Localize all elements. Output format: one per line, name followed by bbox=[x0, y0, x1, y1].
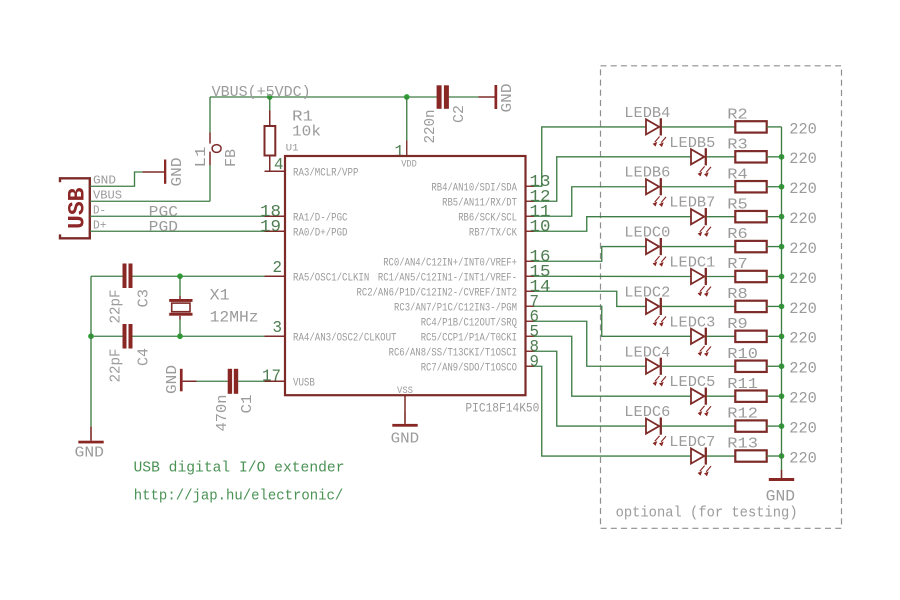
node junction bus bbox=[779, 453, 785, 459]
wire net pin 16 to LED row 5 bbox=[534, 247, 646, 262]
svg-text:GND: GND bbox=[500, 84, 516, 113]
wire OSC2 row bbox=[91, 335, 123, 337]
svg-text:R7: R7 bbox=[727, 256, 747, 273]
node junction left rail C4 bbox=[88, 333, 94, 339]
resistor R11 bbox=[735, 390, 766, 401]
svg-text:RC0/AN4/C12IN+/INT0/VREF+: RC0/AN4/C12IN+/INT0/VREF+ bbox=[383, 258, 517, 270]
ground symbol left GND bbox=[90, 427, 92, 441]
op-amp U1 PIC18F14K50 body bbox=[285, 156, 526, 395]
pin 1 stub bbox=[406, 141, 408, 157]
svg-text:17: 17 bbox=[262, 366, 281, 385]
node junction bus bbox=[779, 154, 785, 160]
svg-text:220: 220 bbox=[789, 449, 817, 467]
svg-text:GND: GND bbox=[165, 365, 181, 394]
svg-text:RC6/AN8/SS/T13CKI/T1OSCI: RC6/AN8/SS/T13CKI/T1OSCI bbox=[389, 348, 517, 360]
net PGC wire D- bbox=[90, 215, 266, 217]
LED LEDC4 bbox=[646, 359, 659, 374]
LED LEDB4 bbox=[646, 119, 659, 134]
svg-text:RB5/AN11/RX/DT: RB5/AN11/RX/DT bbox=[442, 198, 517, 210]
wire resistor bus bbox=[781, 127, 783, 471]
ground symbol VSS GND bbox=[404, 412, 406, 424]
wire net pin 8 to LED row 11 bbox=[534, 351, 646, 426]
ground symbol C1 GND bbox=[180, 369, 183, 392]
svg-text:220: 220 bbox=[789, 330, 817, 348]
wire net pin 13 to LED row 1 bbox=[534, 127, 646, 186]
node junction bus bbox=[779, 333, 785, 339]
inductor L1 ferrite bead bbox=[209, 133, 211, 144]
node junction VDD bbox=[404, 94, 410, 100]
wire R2 to bus bbox=[767, 126, 782, 128]
svg-text:R8: R8 bbox=[727, 286, 747, 303]
svg-text:10k: 10k bbox=[292, 123, 321, 140]
svg-text:GND: GND bbox=[391, 431, 420, 448]
svg-text:LEDC7: LEDC7 bbox=[669, 435, 715, 451]
svg-text:GND: GND bbox=[170, 158, 186, 187]
wire R13 to bus bbox=[767, 455, 782, 457]
pin 17 stub bbox=[265, 380, 286, 382]
svg-text:220: 220 bbox=[789, 180, 817, 198]
pin 18 stub bbox=[265, 215, 286, 217]
wire LED cathode to R13 bbox=[707, 455, 735, 457]
svg-text:GND: GND bbox=[766, 488, 795, 506]
svg-text:10: 10 bbox=[530, 217, 551, 236]
resistor R5 bbox=[735, 211, 766, 222]
svg-text:VUSB: VUSB bbox=[293, 378, 315, 390]
wire USB VBUS to L1 bbox=[90, 200, 210, 202]
wire R1 to pin 4 bbox=[269, 156, 271, 172]
resistor R3 bbox=[735, 151, 766, 162]
LED LEDC7 bbox=[691, 448, 704, 463]
svg-text:4: 4 bbox=[274, 155, 284, 174]
wire R11 to bus bbox=[767, 395, 782, 397]
wire LED cathode to R11 bbox=[707, 395, 735, 397]
svg-text:C4: C4 bbox=[137, 348, 153, 366]
svg-text:220: 220 bbox=[789, 270, 817, 288]
pin 12 stub bbox=[526, 200, 535, 202]
capacitor C4 bbox=[123, 324, 127, 349]
svg-text:L1: L1 bbox=[194, 147, 210, 168]
wire USB GND to ground bbox=[90, 172, 143, 186]
svg-text:RB4/AN10/SDI/SDA: RB4/AN10/SDI/SDA bbox=[431, 183, 517, 195]
svg-text:22pF: 22pF bbox=[108, 290, 124, 324]
svg-text:LEDC4: LEDC4 bbox=[624, 345, 670, 361]
wire net pin 5 to LED row 10 bbox=[534, 336, 691, 396]
wire LED cathode to R3 bbox=[707, 156, 735, 158]
LED LEDB7 bbox=[691, 209, 704, 224]
svg-text:R4: R4 bbox=[727, 166, 747, 183]
node junction bus bbox=[779, 274, 785, 280]
wire LED cathode to R2 bbox=[662, 126, 735, 128]
svg-text:R13: R13 bbox=[727, 436, 758, 453]
svg-text:LEDC5: LEDC5 bbox=[669, 375, 715, 391]
svg-text:GND: GND bbox=[75, 445, 105, 462]
capacitor C3 bbox=[123, 264, 127, 289]
wire net pin 6 to LED row 9 bbox=[534, 321, 646, 366]
pin 4 stub bbox=[265, 170, 286, 172]
wire R6 to bus bbox=[767, 246, 782, 248]
resistor R6 bbox=[735, 241, 766, 252]
svg-text:RC2/AN6/P1D/C12IN2-/CVREF/INT2: RC2/AN6/P1D/C12IN2-/CVREF/INT2 bbox=[357, 288, 518, 300]
svg-text:220: 220 bbox=[789, 360, 817, 378]
wire R5 to bus bbox=[767, 216, 782, 218]
svg-text:R3: R3 bbox=[727, 136, 747, 153]
pin 15 stub bbox=[526, 275, 535, 277]
resistor R9 bbox=[735, 331, 766, 342]
crystal X1 bbox=[169, 299, 192, 302]
LED LEDB6 bbox=[646, 179, 659, 194]
wire net pin 15 to LED row 6 bbox=[534, 275, 691, 277]
wire R8 to bus bbox=[767, 305, 782, 307]
svg-text:LEDB7: LEDB7 bbox=[669, 196, 715, 212]
svg-text:USB: USB bbox=[65, 187, 91, 229]
svg-text:RC3/AN7/P1C/C12IN3-/PGM: RC3/AN7/P1C/C12IN3-/PGM bbox=[394, 303, 517, 315]
svg-text:2: 2 bbox=[273, 258, 283, 277]
LED LEDC1 bbox=[691, 269, 704, 284]
svg-text:RA1/D-/PGC: RA1/D-/PGC bbox=[293, 213, 348, 225]
svg-text:220n: 220n bbox=[423, 110, 439, 144]
svg-text:C3: C3 bbox=[137, 289, 153, 308]
wire net pin 11 to LED row 3 bbox=[534, 187, 646, 217]
wire LED cathode to R9 bbox=[707, 335, 735, 337]
svg-text:LEDC6: LEDC6 bbox=[624, 405, 670, 421]
svg-text:R10: R10 bbox=[727, 346, 758, 363]
svg-text:220: 220 bbox=[789, 240, 817, 258]
wire net pin 10 to LED row 4 bbox=[534, 217, 691, 232]
pin 5 stub bbox=[526, 335, 535, 337]
svg-text:LEDC1: LEDC1 bbox=[669, 256, 715, 272]
pin 8 stub bbox=[526, 350, 535, 352]
svg-text:U1: U1 bbox=[286, 143, 299, 155]
wire OSC1 row bbox=[91, 275, 123, 277]
resistor R2 bbox=[735, 121, 766, 132]
svg-text:USB digital I/O extender: USB digital I/O extender bbox=[134, 460, 345, 476]
svg-text:22pF: 22pF bbox=[108, 349, 124, 383]
ground symbol USB GND bbox=[143, 171, 165, 173]
LED LEDC5 bbox=[691, 389, 704, 404]
wire LED cathode to R5 bbox=[707, 216, 735, 218]
svg-text:X1: X1 bbox=[210, 287, 230, 305]
pin 7 stub bbox=[526, 305, 535, 307]
capacitor C1 bbox=[228, 369, 232, 394]
node junction bus bbox=[779, 214, 785, 220]
svg-text:LEDB5: LEDB5 bbox=[669, 136, 715, 152]
svg-text:RA4/AN3/OSC2/CLKOUT: RA4/AN3/OSC2/CLKOUT bbox=[293, 333, 397, 345]
wire net pin 7 to LED row 8 bbox=[534, 306, 691, 336]
svg-text:RB7/TX/CK: RB7/TX/CK bbox=[469, 228, 517, 240]
node junction bus bbox=[779, 304, 785, 310]
pin 19 stub bbox=[265, 230, 286, 232]
wire R4 to bus bbox=[767, 186, 782, 188]
svg-text:220: 220 bbox=[789, 300, 817, 318]
svg-text:R5: R5 bbox=[727, 196, 747, 213]
LED LEDC6 bbox=[646, 419, 659, 434]
pin 9 stub bbox=[526, 365, 535, 367]
svg-text:optional (for testing): optional (for testing) bbox=[616, 506, 798, 522]
wire LED cathode to R4 bbox=[662, 186, 735, 188]
wire net pin 14 to LED row 7 bbox=[534, 291, 646, 306]
resistor R13 bbox=[735, 450, 766, 461]
net PGD wire D+ bbox=[90, 230, 266, 232]
wire R12 to bus bbox=[767, 425, 782, 427]
wire LED cathode to R8 bbox=[662, 305, 735, 307]
svg-text:LEDC3: LEDC3 bbox=[669, 315, 715, 331]
svg-text:LEDC0: LEDC0 bbox=[624, 226, 670, 242]
svg-text:C1: C1 bbox=[240, 395, 256, 414]
pin 2 stub bbox=[265, 275, 286, 277]
svg-text:PGC: PGC bbox=[149, 205, 179, 221]
ground symbol C2 GND bbox=[479, 96, 495, 98]
wire LED cathode to R7 bbox=[707, 276, 735, 278]
svg-text:220: 220 bbox=[789, 150, 817, 168]
resistor R4 bbox=[735, 181, 766, 192]
svg-text:LEDB6: LEDB6 bbox=[624, 166, 670, 182]
svg-text:3: 3 bbox=[273, 318, 283, 337]
wire R7 to bus bbox=[767, 276, 782, 278]
LED LEDC3 bbox=[691, 329, 704, 344]
LED LEDB5 bbox=[691, 149, 704, 164]
resistor R8 bbox=[735, 301, 766, 312]
svg-text:RC7/AN9/SDO/T1OSCO: RC7/AN9/SDO/T1OSCO bbox=[421, 363, 518, 375]
svg-text:VBUS(+5VDC): VBUS(+5VDC) bbox=[212, 85, 311, 101]
svg-text:19: 19 bbox=[260, 217, 281, 236]
svg-text:R2: R2 bbox=[727, 107, 747, 124]
node junction crystal top bbox=[177, 273, 183, 279]
wire crystal bottom bbox=[179, 316, 181, 320]
node junction bus bbox=[779, 363, 785, 369]
pin 14 stub bbox=[526, 290, 535, 292]
node junction bus bbox=[779, 393, 785, 399]
svg-text:220: 220 bbox=[789, 120, 817, 138]
pin 13 stub bbox=[526, 185, 535, 187]
pin 6 stub bbox=[526, 320, 535, 322]
wire left vertical to ground bbox=[90, 276, 92, 426]
net VBUS(+5VDC) rail bbox=[210, 96, 437, 98]
wire rail to VDD pin bbox=[406, 97, 408, 141]
wire LED cathode to R6 bbox=[662, 246, 735, 248]
svg-text:9: 9 bbox=[530, 352, 540, 371]
wire net pin 9 to LED row 12 bbox=[534, 366, 691, 456]
svg-text:220: 220 bbox=[789, 390, 817, 408]
wire C1 to pin 17 bbox=[238, 380, 266, 382]
svg-text:220: 220 bbox=[789, 210, 817, 228]
wire R3 to bus bbox=[767, 156, 782, 158]
svg-text:RC5/CCP1/P1A/T0CKI: RC5/CCP1/P1A/T0CKI bbox=[421, 333, 517, 345]
wire LED cathode to R10 bbox=[662, 365, 735, 367]
node junction bus bbox=[779, 244, 785, 250]
svg-text:PIC18F14K50: PIC18F14K50 bbox=[465, 402, 539, 416]
svg-text:R12: R12 bbox=[727, 406, 758, 423]
LED LEDC2 bbox=[646, 299, 659, 314]
svg-text:R11: R11 bbox=[727, 376, 758, 393]
svg-text:220: 220 bbox=[789, 420, 817, 438]
capacitor C2 bbox=[437, 85, 442, 109]
wire C2 to GND bbox=[449, 96, 479, 98]
dashed optional box bbox=[601, 66, 842, 529]
svg-text:LEDB4: LEDB4 bbox=[624, 106, 670, 122]
pin 11 stub bbox=[526, 215, 535, 217]
svg-text:C2: C2 bbox=[452, 105, 468, 123]
LED LEDC0 bbox=[646, 239, 659, 254]
svg-text:12MHz: 12MHz bbox=[210, 309, 259, 327]
node junction bus bbox=[779, 184, 785, 190]
wire VSS to ground bbox=[404, 395, 406, 412]
svg-text:RC4/P1B/C12OUT/SRQ: RC4/P1B/C12OUT/SRQ bbox=[421, 318, 518, 330]
ground symbol bus GND bbox=[781, 470, 783, 478]
pin 3 stub bbox=[265, 335, 286, 337]
svg-text:RB6/SCK/SCL: RB6/SCK/SCL bbox=[458, 213, 517, 225]
connector USB body bbox=[60, 178, 90, 238]
svg-text:http://jap.hu/electronic/: http://jap.hu/electronic/ bbox=[134, 488, 343, 504]
svg-text:RA3/MCLR/VPP: RA3/MCLR/VPP bbox=[293, 168, 359, 180]
pin 10 stub bbox=[526, 230, 535, 232]
node junction crystal bottom bbox=[177, 333, 183, 339]
pin 16 stub bbox=[526, 260, 535, 262]
wire crystal top bbox=[179, 276, 181, 296]
svg-text:PGD: PGD bbox=[149, 220, 178, 236]
svg-text:VDD: VDD bbox=[401, 160, 417, 171]
wire L1 to rail bbox=[209, 97, 211, 133]
svg-text:LEDC2: LEDC2 bbox=[624, 285, 670, 301]
svg-text:R9: R9 bbox=[727, 316, 747, 333]
svg-text:470n: 470n bbox=[215, 395, 231, 432]
wire net pin 12 to LED row 2 bbox=[534, 157, 691, 201]
resistor R10 bbox=[735, 361, 766, 372]
svg-text:RC1/AN5/C12IN1-/INT1/VREF-: RC1/AN5/C12IN1-/INT1/VREF- bbox=[378, 273, 517, 285]
resistor R7 bbox=[735, 271, 766, 282]
svg-text:R6: R6 bbox=[727, 226, 747, 243]
resistor R1 bbox=[265, 126, 276, 156]
wire rail to R1 bbox=[269, 97, 271, 111]
wire GND to C1 bbox=[197, 380, 228, 382]
svg-text:FB: FB bbox=[224, 149, 240, 167]
node junction R1 top bbox=[267, 94, 273, 100]
wire R9 to bus bbox=[767, 335, 782, 337]
svg-text:RA5/OSC1/CLKIN: RA5/OSC1/CLKIN bbox=[293, 273, 369, 285]
node junction bus bbox=[779, 423, 785, 429]
resistor R12 bbox=[735, 420, 766, 431]
wire LED cathode to R12 bbox=[662, 425, 735, 427]
wire R10 to bus bbox=[767, 365, 782, 367]
svg-text:RA0/D+/PGD: RA0/D+/PGD bbox=[293, 228, 348, 240]
